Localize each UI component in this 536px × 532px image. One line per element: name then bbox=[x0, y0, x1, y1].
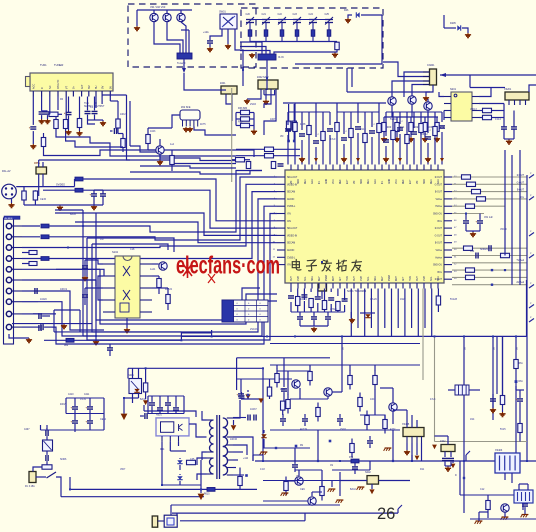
supply wire into N601 bbox=[144, 411, 196, 417]
capacitor bottom-right at 370,442 bbox=[367, 440, 373, 442]
wire junction bbox=[339, 460, 341, 462]
svg-text:10K19: 10K19 bbox=[60, 288, 68, 291]
svg-text:REF: REF bbox=[403, 179, 405, 184]
N201 right pins bbox=[472, 96, 479, 98]
ground under CN201 bbox=[426, 85, 433, 96]
svg-text:AUDIO: AUDIO bbox=[287, 249, 294, 252]
wire junction bbox=[95, 335, 97, 337]
wires XS403 bbox=[504, 473, 506, 480]
resistor R34 bbox=[241, 117, 250, 121]
svg-text:R-OUT: R-OUT bbox=[517, 175, 525, 177]
trunk right turn up bbox=[526, 280, 528, 336]
electrolytic cap power bbox=[87, 406, 93, 408]
svg-text:Hdrive: Hdrive bbox=[435, 205, 442, 208]
resistor bottom-right at 350,380 bbox=[348, 376, 352, 385]
resistor R66 vertical bbox=[238, 477, 242, 486]
svg-text:+: + bbox=[70, 406, 72, 410]
wire junction bbox=[526, 460, 528, 462]
wire y455 link bbox=[253, 454, 263, 456]
right vertical bus A bbox=[504, 150, 506, 256]
svg-text:D06: D06 bbox=[344, 9, 349, 12]
resistor R335 above IC bbox=[434, 112, 436, 126]
wire IC bottom pin down bbox=[370, 289, 372, 329]
resistor R206 bbox=[483, 108, 492, 112]
transistor V04 bbox=[156, 146, 164, 154]
ground under D06 bbox=[348, 15, 352, 18]
svg-text:AGC: AGC bbox=[311, 179, 314, 184]
transistor V201 bbox=[388, 97, 396, 105]
wire nest extra bbox=[50, 280, 96, 286]
capacitor bottom-right at 283,420 bbox=[280, 418, 286, 420]
svg-text:BA10: BA10 bbox=[350, 488, 357, 491]
N601 pins down bbox=[161, 436, 163, 442]
svg-text:PAL-AV: PAL-AV bbox=[2, 170, 11, 173]
resistor bottom-right at 310,376 bbox=[308, 372, 312, 381]
wire IC bottom pin down bbox=[303, 289, 305, 301]
chassis ground at 285,493 bbox=[282, 492, 289, 494]
svg-text:BU: BU bbox=[95, 85, 98, 89]
capacitor below IC bbox=[288, 295, 294, 297]
maroon grounds right bbox=[432, 445, 437, 450]
ceramic filter Z02 bbox=[180, 110, 200, 120]
wires left of CN201 bbox=[404, 72, 423, 97]
resistor R46 on line bbox=[501, 253, 510, 257]
svg-text:R-OUT: R-OUT bbox=[435, 177, 443, 179]
T601 aux winding bbox=[210, 458, 214, 466]
fuse F401 yellow bbox=[29, 472, 36, 483]
diode D65 bbox=[245, 474, 248, 477]
forest arrow mark bbox=[398, 158, 402, 162]
line with R45 bbox=[452, 247, 527, 249]
svg-text:FU 3.15A: FU 3.15A bbox=[25, 485, 35, 488]
resistor R70 bbox=[267, 387, 271, 396]
loop wires x54 x80 bbox=[53, 310, 55, 332]
ground under C08 bbox=[209, 47, 211, 49]
IC bottom pin stubs bbox=[290, 283, 292, 289]
wire junction bbox=[262, 367, 264, 369]
resistor R41 vertical bbox=[246, 162, 250, 169]
trimmer capacitor CT4 bbox=[293, 19, 301, 21]
resistor R22 solid bbox=[75, 188, 83, 192]
wire IC bottom pin down bbox=[337, 289, 339, 297]
resistor R393 above IC bbox=[392, 112, 394, 130]
resistor RT3 bbox=[280, 30, 284, 37]
capacitor C45 bbox=[278, 163, 284, 165]
CN102 pin bbox=[6, 288, 11, 293]
svg-text:YIN: YIN bbox=[287, 265, 291, 267]
CN102 pin bbox=[6, 311, 11, 316]
gray vertical x434 bbox=[434, 336, 436, 441]
wire junction bbox=[465, 213, 467, 215]
svg-text:TUNER: TUNER bbox=[54, 63, 63, 67]
ground G-D205 bbox=[467, 33, 469, 35]
svg-text:R20: R20 bbox=[387, 126, 392, 129]
svg-text:AUDIO: AUDIO bbox=[287, 198, 294, 201]
trunk from AV into IC bbox=[140, 179, 277, 221]
R24 vertical bbox=[33, 191, 37, 200]
wire IC bottom pin down bbox=[317, 289, 319, 297]
maroon ground x262 bbox=[258, 398, 263, 403]
svg-text:Hdrive: Hdrive bbox=[435, 256, 442, 259]
wire junction bbox=[294, 335, 296, 337]
C12 C13 pair bbox=[41, 97, 43, 111]
resistor R323 above IC bbox=[322, 112, 324, 131]
svg-text:D205: D205 bbox=[450, 22, 456, 25]
header escape wires bbox=[22, 225, 40, 227]
CN102 pin bbox=[6, 223, 11, 228]
electrolytic C47 horizontal bbox=[45, 430, 47, 436]
capacitor C205 bbox=[501, 126, 507, 128]
wire junction bbox=[317, 460, 319, 462]
resistor RT5 bbox=[311, 30, 315, 37]
svg-text:VCC: VCC bbox=[396, 179, 398, 184]
top link bus of trimmer bank bbox=[250, 19, 329, 21]
resistor R365 above IC bbox=[364, 112, 366, 133]
svg-text:BV: BV bbox=[101, 85, 104, 89]
capacitor below IC bbox=[328, 297, 334, 299]
svg-text:VIF: VIF bbox=[354, 180, 356, 184]
ground under C51 bbox=[472, 231, 474, 232]
transformer T601 core bbox=[216, 415, 218, 479]
cap C81 bbox=[522, 503, 528, 505]
svg-text:AGC: AGC bbox=[437, 179, 440, 184]
wire MB pin down bbox=[57, 97, 59, 111]
resistor bottom-right at 288,404 bbox=[286, 400, 290, 409]
capacitor C386 above IC bbox=[385, 112, 387, 136]
resistor R82 bbox=[486, 501, 490, 510]
svg-text:R35: R35 bbox=[238, 121, 243, 124]
grounds under Z02 bbox=[185, 127, 187, 129]
staircase wire extra 1 bbox=[140, 166, 236, 168]
CN102 label tag bbox=[4, 216, 20, 219]
resistor R337 above IC bbox=[336, 103, 338, 122]
wires join saw filter path bbox=[264, 112, 276, 135]
option table bbox=[222, 300, 268, 322]
svg-text:5V128: 5V128 bbox=[450, 298, 458, 301]
vertical x263 bbox=[262, 368, 264, 461]
transistor V73 bbox=[389, 403, 397, 411]
svg-text:R61: R61 bbox=[519, 363, 524, 365]
wire junction bbox=[463, 460, 465, 462]
svg-text:0.131: 0.131 bbox=[80, 398, 87, 401]
R13 vertical bbox=[121, 139, 125, 148]
IC right pin stubs bbox=[444, 176, 452, 178]
wire IC bottom pin down bbox=[330, 289, 332, 293]
CN102 pin bbox=[6, 324, 11, 329]
svg-text:SND6: SND6 bbox=[60, 458, 67, 461]
wire IC bottom pin down bbox=[324, 289, 326, 301]
wire x375 down bbox=[374, 389, 376, 415]
step to y336 trunk bbox=[180, 332, 182, 340]
svg-text:XS403: XS403 bbox=[495, 449, 503, 452]
svg-text:AFT: AFT bbox=[402, 276, 405, 281]
resistor RT2 bbox=[264, 30, 268, 37]
resistor R43 bbox=[477, 197, 486, 201]
wire IC bottom pin down bbox=[350, 289, 352, 337]
Z02 legs bbox=[182, 120, 184, 127]
resistor R2x at 437 bbox=[436, 117, 438, 123]
svg-text:VID13: VID13 bbox=[470, 108, 477, 111]
wires bottom right block bbox=[270, 429, 400, 431]
svg-text:Z201: Z201 bbox=[220, 82, 226, 85]
capacitor C316 above IC bbox=[315, 103, 317, 137]
ground under header bbox=[9, 334, 29, 338]
vertical feed lines right of tuner bbox=[126, 95, 128, 152]
wire junction bbox=[211, 335, 213, 337]
connector CN03 in box A bbox=[177, 53, 192, 59]
nested routing wires around U103 bbox=[68, 171, 262, 233]
N201 left pins bbox=[444, 96, 451, 98]
bottom connector XS402 blue bbox=[164, 515, 177, 527]
svg-text:1N27: 1N27 bbox=[400, 298, 406, 301]
svg-text:5V111: 5V111 bbox=[390, 118, 397, 121]
svg-text:R11: R11 bbox=[420, 468, 425, 471]
chain x284 bbox=[283, 358, 285, 387]
big arrow under T601 bbox=[198, 494, 205, 501]
svg-text:2SC23: 2SC23 bbox=[250, 328, 258, 331]
N601 inner die bbox=[161, 422, 174, 433]
capacitor C330 above IC bbox=[329, 112, 331, 125]
capacitor C30 above IC bbox=[399, 112, 401, 124]
ground under V04 bbox=[159, 154, 161, 160]
N601 inner transistor bbox=[178, 424, 180, 431]
svg-text:EXT: EXT bbox=[347, 179, 349, 184]
link bus segments above IC bbox=[288, 111, 330, 113]
vertical x295 bbox=[294, 448, 296, 461]
svg-text:AGC: AGC bbox=[374, 179, 377, 184]
wires U103 left pins bbox=[85, 260, 103, 264]
svg-text:10K2: 10K2 bbox=[120, 113, 126, 116]
svg-text:PWM: PWM bbox=[389, 275, 391, 281]
resistor R351 above IC bbox=[350, 112, 352, 128]
transistor V72 bbox=[324, 388, 332, 396]
wire IC bottom pin down bbox=[310, 289, 312, 293]
svg-text:OUT: OUT bbox=[291, 276, 293, 281]
wire IC bottom pin down bbox=[290, 289, 292, 293]
wire IC bottom pin down bbox=[424, 289, 426, 329]
caps second row below IC bbox=[297, 316, 303, 318]
ground G1 box A bbox=[136, 10, 138, 26]
audio line 2 with R47 bbox=[452, 269, 527, 271]
wires bottom far right bbox=[460, 494, 525, 496]
trunk wire VT bbox=[56, 133, 236, 156]
C14 with plus bbox=[66, 111, 72, 113]
wire junction bbox=[67, 247, 69, 249]
wire IC bottom pin down bbox=[411, 289, 413, 329]
svg-text:CVB: CVB bbox=[298, 276, 300, 281]
cap C33 bbox=[38, 313, 40, 319]
R07 vertical bbox=[77, 119, 81, 128]
wire junction bbox=[463, 335, 465, 337]
svg-text:10024: 10024 bbox=[300, 298, 307, 301]
big arrow VD402 bbox=[121, 414, 128, 421]
arrow D64 bbox=[245, 394, 250, 399]
wire VT pin long down bbox=[65, 97, 67, 120]
svg-text:G-OUT: G-OUT bbox=[435, 235, 443, 237]
resistor RT1 bbox=[248, 30, 252, 37]
svg-text:1N10: 1N10 bbox=[360, 128, 366, 131]
capacitor C372 above IC bbox=[371, 112, 373, 127]
wire y415 link bbox=[360, 414, 385, 416]
svg-text:R34: R34 bbox=[160, 448, 165, 451]
svg-text:C53: C53 bbox=[470, 251, 475, 253]
gray divider line bbox=[231, 88, 233, 182]
svg-text:AV-SIDE: AV-SIDE bbox=[5, 217, 14, 220]
opto wires top bbox=[132, 368, 134, 378]
trunk wires into IC top-left bbox=[236, 148, 300, 150]
svg-text:CVB: CVB bbox=[424, 276, 426, 281]
capacitor bottom-right at 340,420 bbox=[337, 418, 343, 420]
bus under trimmer bank bbox=[250, 41, 337, 43]
long verticals from AV to ground bbox=[82, 210, 84, 336]
T601 terminals right bbox=[227, 417, 233, 419]
trunk below IC y343 bbox=[270, 343, 420, 345]
relay SW01 box bbox=[220, 14, 237, 29]
stub marks y487 bbox=[331, 481, 333, 488]
cap C63 bbox=[239, 395, 245, 397]
svg-text:YIN: YIN bbox=[287, 214, 291, 216]
capacitor power filter bbox=[165, 402, 171, 404]
gray route to right bbox=[435, 441, 528, 443]
C11 electrolytic at pin1 bbox=[32, 97, 34, 125]
XS201 pin stubs bbox=[508, 100, 510, 105]
resistor R61 on x516 bbox=[514, 360, 518, 369]
junction diode on audio bbox=[491, 269, 493, 271]
svg-text:+: + bbox=[29, 126, 31, 130]
supply bus above IC bbox=[283, 102, 386, 104]
power bank buses bbox=[66, 397, 104, 399]
resistor R60 on x438 bbox=[437, 289, 439, 297]
wire junction bbox=[161, 484, 163, 486]
wire Z02 out right bbox=[194, 127, 236, 136]
svg-text:5V15: 5V15 bbox=[500, 428, 506, 431]
extra wires bottom right rows bbox=[263, 447, 310, 449]
grounds far right bottom bbox=[502, 516, 509, 518]
resistor R31 solid bbox=[41, 224, 49, 228]
nest rectangle wires bbox=[92, 244, 168, 250]
svg-text:+: + bbox=[70, 420, 72, 424]
svg-text:AFT: AFT bbox=[81, 84, 84, 89]
svg-text:VIDEO-IN: VIDEO-IN bbox=[287, 184, 298, 186]
trunk y358 bbox=[237, 357, 330, 359]
svg-text:CVB: CVB bbox=[361, 276, 363, 281]
svg-text:VIF: VIF bbox=[417, 180, 419, 184]
capacitor C388 above IC bbox=[287, 112, 289, 125]
transistor V203 bbox=[424, 102, 432, 110]
trunk y461 bbox=[255, 460, 536, 462]
svg-text:SCL: SCL bbox=[368, 276, 370, 281]
wire junction bbox=[515, 335, 517, 337]
wire V73 to CN403 bbox=[392, 430, 394, 461]
svg-text:4K75: 4K75 bbox=[200, 123, 206, 126]
trunk y368 bbox=[128, 367, 263, 369]
svg-text:TUN: TUN bbox=[84, 103, 89, 105]
bias bus for V201-203 bbox=[384, 116, 438, 118]
svg-text:C20: C20 bbox=[246, 13, 251, 16]
trunk y505 bbox=[171, 504, 340, 506]
transistor V80 bbox=[501, 504, 509, 512]
trimmer capacitor CT1 bbox=[246, 19, 254, 21]
ground under C15/C16 bbox=[102, 121, 104, 123]
trunk y340 with R62 bbox=[44, 339, 66, 341]
CN102 pin bbox=[6, 245, 11, 250]
capacitor C206 bbox=[511, 126, 517, 128]
svg-text:4K722: 4K722 bbox=[165, 288, 173, 291]
svg-text:2SC0: 2SC0 bbox=[340, 428, 347, 431]
svg-text:SECAM: SECAM bbox=[287, 242, 295, 245]
wire junction bbox=[242, 69, 244, 71]
svg-text:XS405: XS405 bbox=[402, 423, 410, 426]
wire junction bbox=[145, 367, 147, 369]
ground under C205/C206 bbox=[504, 138, 514, 140]
svg-text:1007: 1007 bbox=[270, 118, 276, 121]
red marks below IC bbox=[365, 314, 370, 317]
svg-text:C410: C410 bbox=[68, 394, 74, 396]
transistor Q3 bbox=[177, 13, 185, 21]
FB5A leads bbox=[38, 174, 40, 196]
wire junction bbox=[69, 488, 71, 490]
right vertical bus B bbox=[511, 155, 513, 285]
bottom-right transistor amp rows bbox=[270, 364, 420, 366]
small transformer bottom-right corner bbox=[514, 490, 533, 503]
video line R-OUT bbox=[452, 176, 527, 178]
wire IC bottom pin down bbox=[404, 289, 406, 337]
C15 solid cap bbox=[87, 97, 89, 111]
wire IC bottom pin down bbox=[377, 289, 379, 337]
watermark chinese char zi bbox=[307, 260, 317, 271]
wire into Z02 bbox=[172, 115, 180, 128]
wire junction bbox=[123, 397, 125, 399]
wire V74 base bbox=[286, 480, 295, 482]
wire y470 right bbox=[332, 469, 370, 471]
svg-text:TU01: TU01 bbox=[40, 63, 47, 67]
wire V-amp row1 bbox=[276, 365, 278, 369]
svg-text:KEY: KEY bbox=[319, 276, 321, 281]
svg-text:SND-OU: SND-OU bbox=[433, 265, 442, 267]
tuner block TU01 bbox=[30, 73, 113, 91]
resistor bottom-right at 277,378 bbox=[275, 374, 279, 383]
connector XS201 top right bbox=[505, 92, 529, 100]
chassis ground at 340,500 bbox=[337, 499, 344, 501]
svg-text:SND: SND bbox=[361, 179, 363, 184]
C16 solid cap bbox=[94, 97, 96, 111]
CN201 pin wires bbox=[423, 71, 430, 73]
wire into D205 bbox=[444, 27, 456, 29]
transistor Q1 bbox=[150, 13, 158, 21]
wire left of bank bbox=[65, 398, 67, 414]
C06 cap right bbox=[113, 128, 115, 134]
resistor bottom-right at 352,448 bbox=[350, 444, 354, 453]
U103 pins right bbox=[140, 263, 152, 265]
cap on header wire bbox=[34, 288, 36, 294]
resistor bottom-right at 318,412 bbox=[316, 408, 320, 417]
resistor R21 solid bbox=[75, 177, 83, 181]
R04 horizontal bbox=[49, 112, 58, 116]
wire B+ pins down to right bbox=[95, 97, 97, 109]
ground maroon under R64 bbox=[143, 400, 148, 405]
ground under relay bbox=[227, 44, 229, 46]
junction diodes VD1 VD2 bbox=[287, 140, 290, 143]
wire junction bbox=[411, 460, 413, 462]
X402 legs bbox=[444, 452, 446, 458]
op-amp IC N201 8pin bbox=[451, 92, 472, 121]
forest arrow mark bbox=[440, 158, 444, 162]
video line G-OUT bbox=[452, 183, 527, 185]
svg-text:CE15: CE15 bbox=[40, 198, 47, 201]
resistor R2x at 411 bbox=[410, 117, 412, 123]
ground under U103 bbox=[126, 318, 128, 328]
bottom inner wire box B bbox=[295, 63, 382, 65]
